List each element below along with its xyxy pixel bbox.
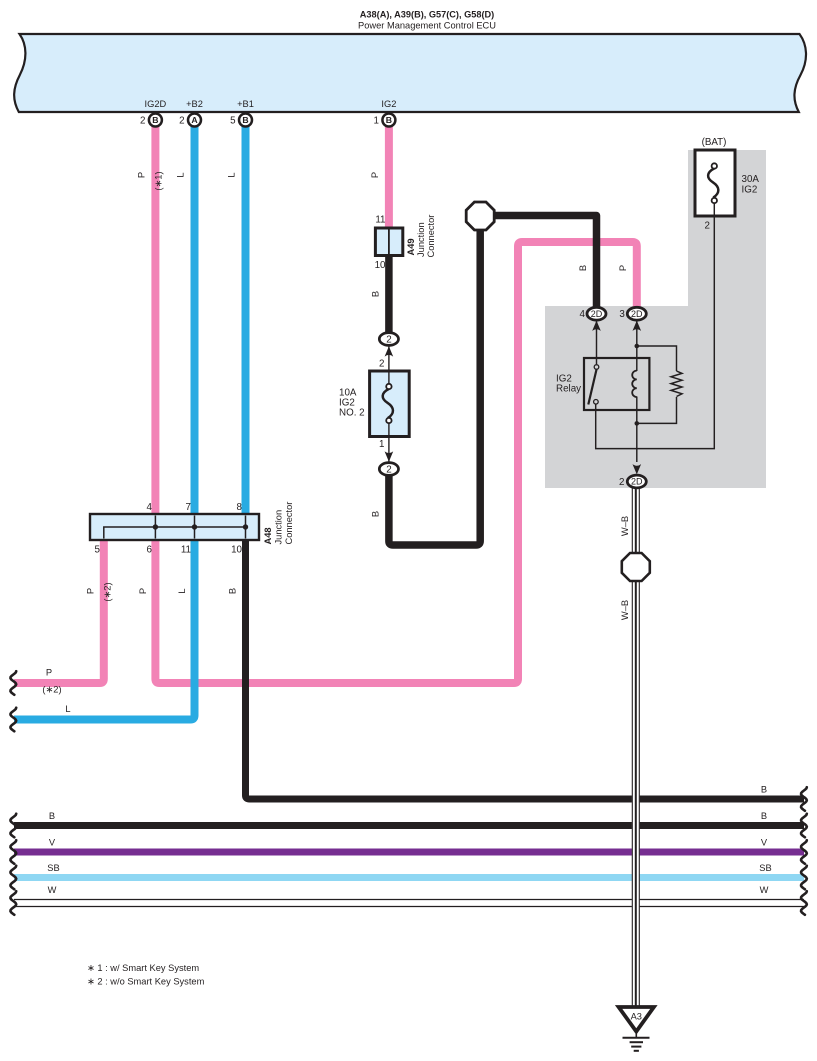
svg-text:Connector: Connector	[284, 502, 294, 545]
svg-text:B: B	[371, 291, 381, 297]
svg-text:V: V	[49, 838, 56, 848]
svg-text:P: P	[370, 172, 380, 178]
svg-text:Relay: Relay	[556, 384, 581, 395]
svg-text:L: L	[176, 172, 186, 177]
svg-text:B: B	[761, 811, 767, 821]
svg-text:4: 4	[147, 502, 153, 513]
svg-text:2: 2	[140, 115, 145, 126]
svg-text:A48: A48	[263, 527, 273, 544]
svg-text:V: V	[761, 838, 768, 848]
svg-text:B: B	[242, 115, 248, 125]
svg-text:B: B	[386, 115, 392, 125]
svg-text:11: 11	[375, 215, 385, 226]
svg-text:B: B	[228, 588, 238, 594]
svg-text:A3: A3	[631, 1012, 642, 1022]
svg-text:A49: A49	[406, 238, 416, 255]
svg-text:∗ 1 : w/ Smart Key System: ∗ 1 : w/ Smart Key System	[87, 963, 199, 973]
svg-text:P: P	[137, 172, 147, 178]
svg-text:10: 10	[231, 545, 242, 556]
svg-text:Connector: Connector	[426, 215, 436, 258]
svg-text:IG2D: IG2D	[145, 99, 167, 109]
svg-text:B: B	[152, 115, 158, 125]
svg-text:4: 4	[580, 309, 586, 320]
svg-text:6: 6	[147, 545, 153, 556]
svg-text:10: 10	[375, 260, 386, 271]
svg-text:L: L	[177, 588, 187, 593]
svg-text:2: 2	[386, 465, 391, 476]
svg-text:+B2: +B2	[186, 99, 203, 109]
svg-text:B: B	[761, 785, 767, 795]
svg-text:Power Management Control ECU: Power Management Control ECU	[358, 21, 496, 31]
svg-text:Junction: Junction	[416, 222, 426, 257]
svg-text:L: L	[65, 704, 70, 714]
svg-text:2D: 2D	[631, 477, 643, 487]
svg-text:IG2: IG2	[742, 185, 758, 196]
svg-text:1: 1	[379, 439, 384, 450]
svg-text:8: 8	[237, 502, 243, 513]
svg-text:P: P	[86, 588, 96, 594]
svg-text:11: 11	[181, 545, 191, 556]
svg-text:1: 1	[374, 115, 379, 126]
svg-text:W: W	[48, 885, 57, 895]
svg-text:5: 5	[230, 115, 236, 126]
svg-text:SB: SB	[759, 863, 771, 873]
svg-text:P: P	[46, 668, 52, 678]
svg-text:L: L	[227, 172, 237, 177]
svg-text:2D: 2D	[591, 309, 603, 319]
svg-text:W: W	[760, 885, 769, 895]
svg-text:2: 2	[705, 221, 710, 232]
svg-text:W–B: W–B	[620, 600, 630, 620]
svg-text:Junction: Junction	[274, 510, 284, 545]
svg-text:P: P	[138, 588, 148, 594]
svg-text:B: B	[371, 511, 381, 517]
svg-text:A: A	[191, 115, 198, 125]
svg-text:∗ 2 : w/o Smart Key System: ∗ 2 : w/o Smart Key System	[87, 977, 205, 987]
svg-text:2D: 2D	[631, 309, 643, 319]
svg-text:+B1: +B1	[237, 99, 254, 109]
svg-text:IG2: IG2	[381, 99, 396, 109]
svg-text:(∗2): (∗2)	[42, 685, 61, 695]
svg-text:3: 3	[619, 309, 625, 320]
svg-text:5: 5	[95, 545, 101, 556]
svg-text:SB: SB	[47, 863, 59, 873]
svg-text:2: 2	[386, 335, 391, 346]
svg-text:(BAT): (BAT)	[702, 137, 727, 148]
svg-text:B: B	[578, 265, 588, 271]
svg-text:B: B	[49, 811, 55, 821]
svg-text:2: 2	[379, 359, 384, 370]
svg-text:7: 7	[186, 502, 191, 513]
svg-text:30A: 30A	[742, 174, 760, 185]
svg-text:2: 2	[179, 115, 184, 126]
svg-text:(∗2): (∗2)	[103, 582, 113, 601]
svg-text:(∗1): (∗1)	[154, 171, 164, 190]
svg-text:2: 2	[619, 477, 624, 488]
svg-text:W–B: W–B	[620, 516, 630, 536]
svg-text:P: P	[618, 265, 628, 271]
svg-text:NO. 2: NO. 2	[339, 408, 365, 419]
svg-text:A38(A), A39(B), G57(C), G58(D): A38(A), A39(B), G57(C), G58(D)	[360, 10, 494, 20]
